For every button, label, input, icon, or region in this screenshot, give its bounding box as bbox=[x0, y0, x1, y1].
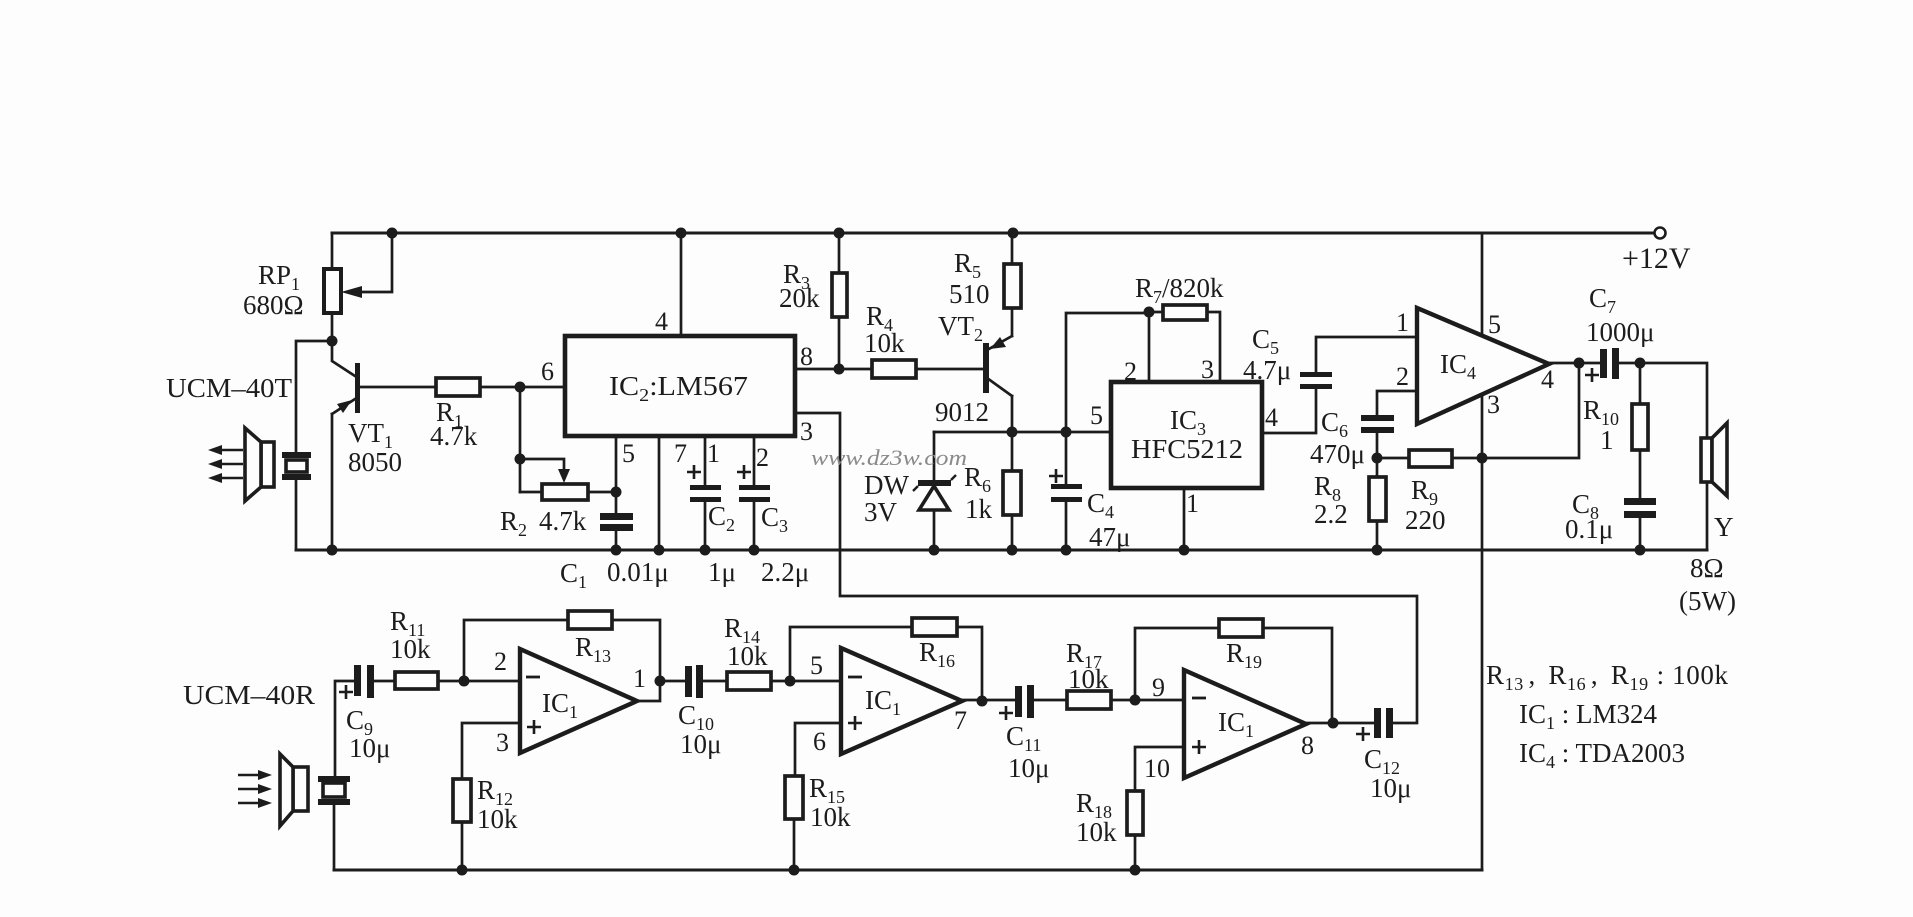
svg-text:10k: 10k bbox=[1076, 817, 1117, 847]
svg-text:1: 1 bbox=[707, 439, 720, 468]
svg-text:IC1​ : LM324: IC1​ : LM324 bbox=[1519, 699, 1658, 733]
svg-text:2: 2 bbox=[756, 443, 769, 472]
svg-text:5: 5 bbox=[1488, 310, 1501, 339]
svg-text:8: 8 bbox=[800, 342, 813, 371]
svg-text:UCM–40T: UCM–40T bbox=[166, 373, 293, 403]
svg-text:5: 5 bbox=[810, 651, 823, 680]
svg-text:680Ω: 680Ω bbox=[243, 290, 304, 320]
svg-text:9: 9 bbox=[1152, 673, 1165, 702]
svg-text:10k: 10k bbox=[1068, 664, 1109, 694]
svg-text:HFC5212: HFC5212 bbox=[1131, 434, 1243, 464]
svg-text:10k: 10k bbox=[864, 328, 905, 358]
svg-text:IC2​:LM567: IC2​:LM567 bbox=[609, 371, 748, 405]
svg-text:6: 6 bbox=[541, 357, 554, 386]
svg-text:1: 1 bbox=[633, 664, 646, 693]
svg-text:1k: 1k bbox=[965, 494, 993, 524]
svg-text:10k: 10k bbox=[727, 641, 768, 671]
svg-text:1μ: 1μ bbox=[708, 557, 736, 587]
svg-text:6: 6 bbox=[813, 727, 826, 756]
svg-text:10: 10 bbox=[1144, 754, 1170, 783]
svg-text:0.01μ: 0.01μ bbox=[607, 557, 669, 587]
svg-text:IC4​ : TDA2003: IC4​ : TDA2003 bbox=[1519, 738, 1685, 772]
svg-text:7: 7 bbox=[674, 439, 687, 468]
svg-text:2: 2 bbox=[1396, 362, 1409, 391]
svg-text:3: 3 bbox=[800, 417, 813, 446]
svg-text:Y: Y bbox=[1714, 512, 1734, 542]
svg-text:7: 7 bbox=[954, 706, 967, 735]
svg-text:3: 3 bbox=[1487, 390, 1500, 419]
svg-text:www.dz3w.com: www.dz3w.com bbox=[811, 445, 967, 470]
svg-text:10μ: 10μ bbox=[680, 729, 721, 759]
svg-text:4: 4 bbox=[1541, 365, 1554, 394]
svg-text:47μ: 47μ bbox=[1089, 522, 1130, 552]
svg-text:20k: 20k bbox=[779, 283, 820, 313]
svg-text:2.2: 2.2 bbox=[1314, 499, 1348, 529]
svg-text:2: 2 bbox=[1124, 357, 1137, 386]
svg-text:10k: 10k bbox=[390, 634, 431, 664]
svg-text:4.7k: 4.7k bbox=[430, 421, 478, 451]
svg-text:0.1μ: 0.1μ bbox=[1565, 514, 1613, 544]
svg-text:220: 220 bbox=[1405, 505, 1446, 535]
svg-text:9012: 9012 bbox=[935, 397, 989, 427]
svg-text:510: 510 bbox=[949, 279, 990, 309]
svg-text:8: 8 bbox=[1301, 731, 1314, 760]
svg-text:(5W): (5W) bbox=[1679, 586, 1736, 616]
svg-text:8050: 8050 bbox=[348, 447, 402, 477]
svg-text:470μ: 470μ bbox=[1310, 439, 1365, 469]
svg-text:1: 1 bbox=[1600, 425, 1614, 455]
svg-text:10k: 10k bbox=[810, 802, 851, 832]
svg-text:1: 1 bbox=[1396, 308, 1409, 337]
svg-text:10μ: 10μ bbox=[1008, 753, 1049, 783]
svg-text:8Ω: 8Ω bbox=[1690, 553, 1724, 583]
svg-text:1000μ: 1000μ bbox=[1586, 317, 1654, 347]
svg-text:10μ: 10μ bbox=[1370, 773, 1411, 803]
svg-text:4.7k: 4.7k bbox=[539, 506, 587, 536]
svg-text:3: 3 bbox=[1201, 355, 1214, 384]
svg-text:10k: 10k bbox=[477, 804, 518, 834]
svg-text:5: 5 bbox=[1090, 401, 1103, 430]
svg-text:3V: 3V bbox=[864, 497, 898, 527]
svg-text:+12V: +12V bbox=[1622, 242, 1691, 275]
svg-text:DW: DW bbox=[864, 470, 909, 500]
svg-text:4.7μ: 4.7μ bbox=[1243, 355, 1291, 385]
svg-text:R7​/820k: R7​/820k bbox=[1135, 273, 1224, 307]
svg-text:4: 4 bbox=[655, 307, 668, 336]
svg-text:2.2μ: 2.2μ bbox=[761, 557, 809, 587]
svg-text:5: 5 bbox=[622, 439, 635, 468]
svg-text:10μ: 10μ bbox=[349, 733, 390, 763]
svg-text:1: 1 bbox=[1186, 489, 1199, 518]
svg-text:4: 4 bbox=[1265, 403, 1278, 432]
svg-text:2: 2 bbox=[494, 647, 507, 676]
svg-text:3: 3 bbox=[496, 728, 509, 757]
svg-text:UCM–40R: UCM–40R bbox=[183, 680, 315, 710]
